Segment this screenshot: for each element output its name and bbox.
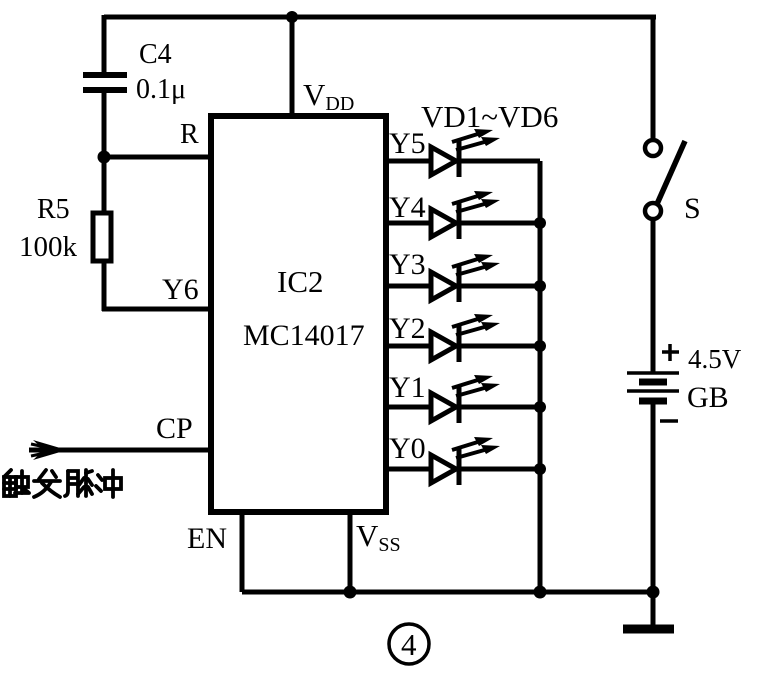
ground <box>623 625 674 634</box>
node R junction <box>98 151 111 164</box>
wire top rail <box>104 15 656 20</box>
wire LED cathode bus <box>538 161 543 592</box>
svg-text:CP: CP <box>156 412 193 445</box>
wire CP input <box>29 448 212 453</box>
svg-text:C4: C4 <box>139 39 172 70</box>
svg-text:Y3: Y3 <box>389 248 426 281</box>
svg-text:4.5V: 4.5V <box>688 344 742 374</box>
svg-text:GB: GB <box>687 381 729 414</box>
wire battery to bottom rail <box>651 404 656 592</box>
svg-text:Y4: Y4 <box>389 191 426 224</box>
arrow CP input <box>33 440 67 460</box>
node bus-bottom junction <box>534 586 547 599</box>
node bus junction y=407 <box>534 401 546 413</box>
svg-text:0.1μ: 0.1μ <box>136 74 186 105</box>
wire C4 to junction <box>102 93 107 160</box>
svg-text:Y1: Y1 <box>389 371 426 404</box>
svg-text:IC2: IC2 <box>277 264 324 299</box>
svg-text:Y2: Y2 <box>389 312 426 345</box>
node bus junction y=286 <box>534 280 546 292</box>
LED VD4 (Y3 output) <box>386 254 540 302</box>
node Vdd junction <box>286 11 298 23</box>
wire R5 to Y6 <box>102 261 107 311</box>
wire R pin <box>104 155 212 160</box>
op-amp IC2 MC14017 box <box>211 116 386 512</box>
switch S bottom contact <box>645 203 661 219</box>
node bus junction y=346 <box>534 340 546 352</box>
svg-text:EN: EN <box>187 522 227 555</box>
svg-text:Y6: Y6 <box>162 273 199 306</box>
switch S lever <box>657 141 685 204</box>
wire switch top <box>651 17 656 140</box>
resistor R5 <box>93 213 111 261</box>
wire bottom rail <box>242 590 655 595</box>
label minus <box>660 419 678 423</box>
svg-text:Y0: Y0 <box>389 432 426 465</box>
svg-text:100k: 100k <box>19 231 78 263</box>
wire to ground <box>651 592 656 628</box>
LED VD2 (Y1 output) <box>386 375 540 423</box>
wire Vdd branch <box>290 17 295 118</box>
svg-text:S: S <box>684 192 701 225</box>
switch S top contact <box>645 140 661 156</box>
label + <box>662 344 679 361</box>
svg-text:4: 4 <box>401 627 417 662</box>
capacitor C4 <box>83 75 127 90</box>
svg-text:MC14017: MC14017 <box>243 319 365 352</box>
svg-text:R: R <box>180 119 199 150</box>
node Vss junction <box>344 586 357 599</box>
battery GB plate 3 (long) <box>627 389 679 393</box>
LED VD1 (Y0 output) <box>386 437 540 485</box>
wire Vss pin <box>348 512 353 592</box>
LED VD6 (Y5 output) <box>386 129 540 177</box>
wire junction to R5 <box>102 157 107 214</box>
wire switch to battery <box>651 219 656 372</box>
LED VD3 (Y2 output) <box>386 314 540 362</box>
svg-text:VD1~VD6: VD1~VD6 <box>421 99 558 134</box>
label trigger pulse (Chinese) <box>4 470 121 497</box>
node bus junction y=223 <box>534 217 546 229</box>
wire EN pin <box>240 512 245 592</box>
wire left top (to C4) <box>102 15 107 74</box>
svg-text:R5: R5 <box>37 194 70 225</box>
battery GB plate 1 (long +) <box>627 371 679 375</box>
LED VD5 (Y4 output) <box>386 191 540 239</box>
battery GB plate 4 (short) <box>639 398 667 405</box>
figure number 4 (circled) <box>389 624 429 664</box>
battery GB plate 2 (short) <box>639 379 667 386</box>
wire Y6 pin <box>102 307 212 312</box>
svg-text:Y5: Y5 <box>389 127 426 160</box>
node bus junction y=469 <box>534 463 546 475</box>
node battery-bottom junction <box>647 586 660 599</box>
